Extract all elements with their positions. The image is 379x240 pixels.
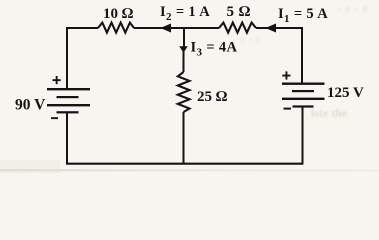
battery 125 V plus terminal <box>282 71 290 79</box>
current arrow I3 <box>179 46 188 53</box>
svg-text:5 Ω: 5 Ω <box>227 4 251 20</box>
value label 5 ohm <box>227 4 251 20</box>
label I1 = 5 A <box>278 6 328 25</box>
battery 90 V minus terminal <box>51 117 58 119</box>
wire: right rail lower <box>302 107 304 165</box>
resistor 10 ohm <box>98 23 134 33</box>
value label 10 ohm <box>103 6 134 22</box>
wire: right rail upper <box>301 27 303 84</box>
node: top junction of middle branch <box>183 27 185 47</box>
label I2 = 1 A <box>160 4 210 23</box>
wire: top rail segment to 5 ohm <box>184 27 219 29</box>
svg-text:25 Ω: 25 Ω <box>197 89 228 105</box>
wire: top rail right segment <box>256 27 302 29</box>
svg-text:10 Ω: 10 Ω <box>103 6 134 22</box>
value label 25 ohm <box>197 89 228 105</box>
wire: bottom rail <box>66 163 303 165</box>
wire: left rail upper <box>66 27 68 89</box>
svg-text:+ 0 = 0: + 0 = 0 <box>336 4 368 16</box>
svg-text:lste the: lste the <box>311 106 348 120</box>
battery 125 V <box>282 83 325 108</box>
svg-text:0 = 0: 0 = 0 <box>240 36 261 47</box>
battery 90 V <box>47 88 90 113</box>
svg-text:90 V: 90 V <box>15 97 46 114</box>
battery 125 V minus terminal <box>284 108 292 110</box>
wire: left rail lower <box>66 113 68 165</box>
resistor 25 ohm <box>178 72 190 112</box>
value label 125 V <box>327 85 364 101</box>
wire: top rail middle segment <box>134 27 184 29</box>
current arrow I2 <box>160 24 171 33</box>
svg-text:125 V: 125 V <box>327 85 364 101</box>
resistor 5 ohm <box>219 23 256 33</box>
wire: top rail left segment <box>67 27 98 29</box>
value label 90 V <box>15 97 46 114</box>
battery 90 V plus terminal <box>53 76 61 84</box>
wire: middle branch upper <box>183 50 185 72</box>
label I3 = 4A <box>191 39 238 58</box>
current arrow I1 <box>265 24 276 33</box>
wire: middle branch lower <box>183 112 185 165</box>
